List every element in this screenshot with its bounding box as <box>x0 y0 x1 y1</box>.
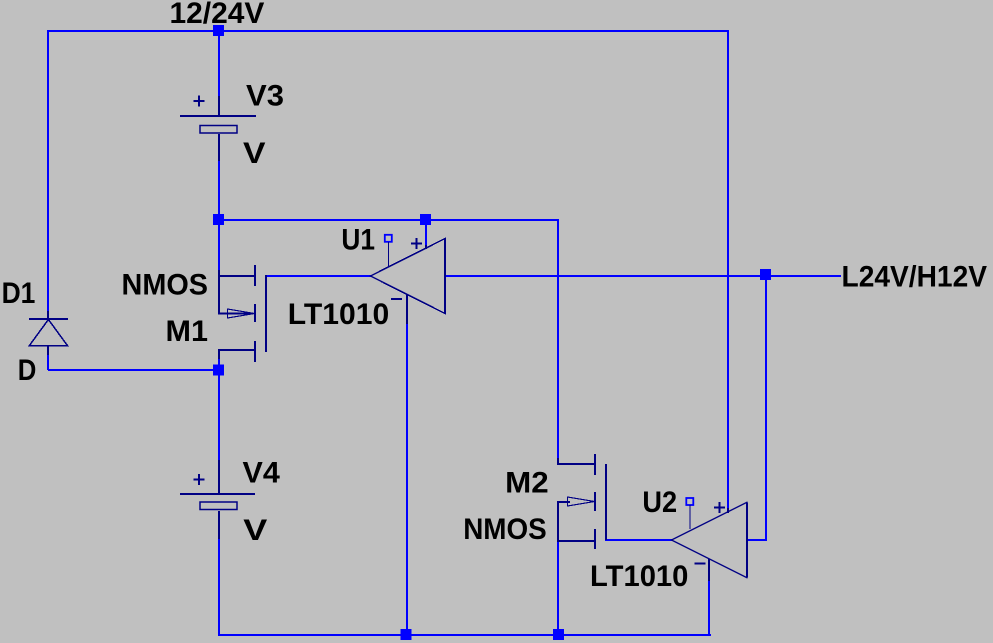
svg-text:M2: M2 <box>505 467 549 500</box>
svg-text:U1: U1 <box>341 224 375 257</box>
svg-text:U2: U2 <box>642 486 677 519</box>
svg-text:L24V/H12V: L24V/H12V <box>842 261 988 294</box>
svg-text:LT1010: LT1010 <box>288 298 389 331</box>
svg-text:D: D <box>18 354 37 387</box>
svg-text:V: V <box>243 137 266 170</box>
svg-text:V: V <box>243 514 267 547</box>
svg-text:12/24V: 12/24V <box>170 0 265 30</box>
svg-text:D1: D1 <box>2 277 36 310</box>
svg-text:LT1010: LT1010 <box>590 560 688 593</box>
svg-text:M1: M1 <box>166 315 209 348</box>
svg-text:V3: V3 <box>246 80 284 113</box>
svg-text:V4: V4 <box>243 457 281 490</box>
svg-text:NMOS: NMOS <box>463 513 547 546</box>
svg-text:NMOS: NMOS <box>122 269 209 302</box>
